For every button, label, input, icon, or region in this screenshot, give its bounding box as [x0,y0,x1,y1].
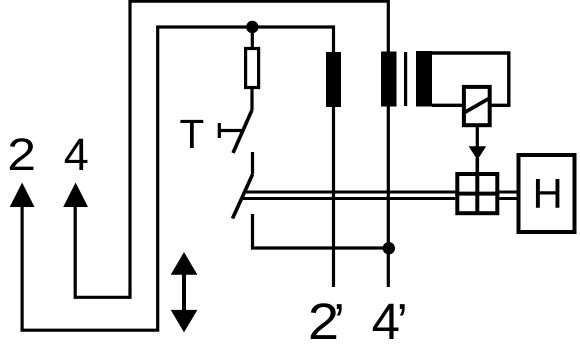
box H [519,155,575,232]
crosshair vertical [475,174,479,213]
node junction lower [383,242,395,254]
double-headed motion arrow [171,252,198,332]
wire: terminal 2 path (arrow shaft, bottom run, vertical, second top run to coil L1) [22,27,333,330]
svg-text:H: H [533,170,563,217]
svg-text:’: ’ [334,293,345,345]
svg-text:T: T [180,111,205,157]
label 2' [308,293,339,345]
wire: arrow to crosshair box [475,158,479,215]
wire: junction to resistor [251,27,254,48]
valve box with diagonal [464,87,490,125]
arrowhead down [469,146,487,160]
svg-text:4: 4 [64,129,89,180]
resistor [246,49,259,88]
relay frame rectangle [432,53,509,105]
wire: terminal 4 path (arrow shaft, bottom run, left vertical, top run, down to primary bar) [75,1,388,297]
switch 2 lower terminal wire to junction [253,214,388,248]
switch 2 blade [233,175,253,219]
svg-text:’: ’ [397,293,408,345]
wire: coil L2 down to terminal 4' [387,107,390,288]
coil L1 (solid bar) [326,52,341,107]
wire: coil L1 down to terminal 2' [332,107,335,287]
coil L2 (solid bar) [381,52,397,107]
arrowhead terminal 2 [10,183,35,208]
wire: resistor to switch T [250,89,253,111]
mechanical linkage double line [242,192,518,199]
coil L3 (solid bar) [416,51,432,107]
node junction on upper run [246,21,258,33]
arrowhead terminal 4 [63,183,88,208]
svg-text:2: 2 [7,130,36,180]
switch 2 upper terminal [251,152,254,175]
label 2 [7,130,36,180]
switch T fixed contact [219,123,241,138]
switch T blade [233,110,252,153]
transformer core line [404,52,407,106]
wire: valve box to actuator [476,125,479,148]
diagonal in valve box [465,99,490,113]
crosshair horizontal [455,192,499,196]
crosshair box [457,174,497,213]
